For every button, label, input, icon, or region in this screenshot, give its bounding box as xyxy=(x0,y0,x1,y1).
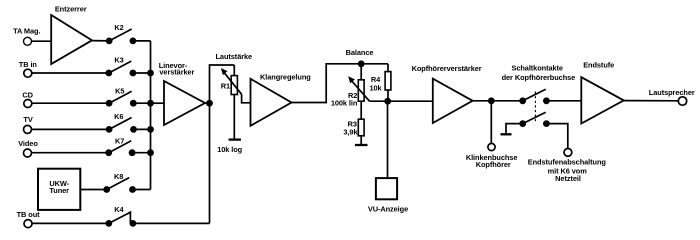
node Video terminal xyxy=(24,149,32,157)
svg-text:Endstufenabschaltung: Endstufenabschaltung xyxy=(528,158,607,167)
svg-text:Video: Video xyxy=(18,139,38,148)
op-amp Endstufe xyxy=(581,77,624,123)
wire R1 wiper arrow to Klangregelung xyxy=(221,68,251,103)
wire Video to K7 xyxy=(32,152,109,154)
svg-text:Lautstärke: Lautstärke xyxy=(216,52,253,61)
svg-text:TA Mag.: TA Mag. xyxy=(13,27,40,36)
svg-text:Schaltkontakte: Schaltkontakte xyxy=(511,64,562,73)
switch K5 xyxy=(106,91,137,106)
svg-text:Entzerrer: Entzerrer xyxy=(55,5,87,14)
switch upper jack contact xyxy=(519,89,550,104)
op-amp Entzerrer xyxy=(51,15,92,64)
svg-text:K3: K3 xyxy=(114,55,123,64)
svg-text:K2: K2 xyxy=(114,23,123,32)
node TA Mag. input terminal xyxy=(24,37,32,45)
wire mechanical link (dashed) xyxy=(534,92,536,123)
resistor R4 xyxy=(385,64,391,101)
wire junction to Kopfhoererverstaerker xyxy=(388,100,433,102)
switch K4 (closed) xyxy=(105,212,136,227)
node CD terminal xyxy=(24,100,32,108)
wire TB in to K3 xyxy=(32,72,109,74)
wire K6 to bus xyxy=(134,128,151,130)
node TV terminal xyxy=(24,125,32,133)
wire TB out to K4 xyxy=(32,222,109,224)
wire lower contact left to ground xyxy=(506,124,523,135)
resistor R1 potentiometer body xyxy=(231,65,237,140)
svg-text:10k log: 10k log xyxy=(217,145,242,154)
svg-text:10k: 10k xyxy=(369,83,382,92)
svg-text:CD: CD xyxy=(22,91,33,100)
svg-text:verstärker: verstärker xyxy=(159,68,194,77)
node bus junction K7 xyxy=(147,149,154,156)
svg-text:Netzteil: Netzteil xyxy=(555,174,581,183)
ground R3 bottom bar xyxy=(355,144,368,146)
wire junction down to VU-Anzeige xyxy=(387,101,389,178)
switch K7 xyxy=(105,141,135,156)
wire K7 to bus xyxy=(132,152,150,154)
node Endstufenabschaltung terminal xyxy=(564,149,572,157)
wire upper contact to Endstufe xyxy=(546,100,581,102)
node Lautsprecher terminal xyxy=(678,97,686,105)
op-amp Klangregelung xyxy=(251,79,292,126)
svg-text:TB in: TB in xyxy=(19,60,38,69)
resistor R3 xyxy=(358,119,364,145)
wire CD to K5 xyxy=(32,102,109,104)
VU-Anzeige box xyxy=(376,178,397,199)
svg-text:TB out: TB out xyxy=(17,210,41,219)
wire preamp node down to TB out line xyxy=(209,103,211,223)
svg-text:Klangregelung: Klangregelung xyxy=(260,73,311,82)
svg-text:Kopfhörerverstärker: Kopfhörerverstärker xyxy=(412,64,482,73)
svg-text:Tuner: Tuner xyxy=(49,186,69,195)
wire preamp node up to R1 top xyxy=(210,65,235,103)
op-amp Kopfhoererverstaerker xyxy=(433,79,473,123)
UKW-Tuner box xyxy=(38,169,80,210)
node bus junction K6 xyxy=(147,126,154,133)
switch K3 xyxy=(105,61,136,76)
wire UKW-Tuner to K8 xyxy=(80,189,106,191)
svg-text:K5: K5 xyxy=(115,87,124,96)
wire K2 to bus xyxy=(133,40,151,42)
svg-text:der Kopfhörerbuchse: der Kopfhörerbuchse xyxy=(502,73,576,82)
wire Linevorverstaerker output to node xyxy=(205,102,210,104)
svg-text:Lautsprecher: Lautsprecher xyxy=(649,88,695,97)
wire TA Mag. to Entzerrer input xyxy=(32,40,51,42)
wire Kopfhoererverstaerker output xyxy=(473,100,492,102)
svg-text:VU-Anzeige: VU-Anzeige xyxy=(368,205,408,214)
node bus junction K5 xyxy=(147,100,154,107)
resistor R2 potentiometer body xyxy=(358,64,364,119)
ground bar lower contact xyxy=(501,133,512,135)
wire input bus vertical xyxy=(150,41,152,190)
node bus junction K3 xyxy=(147,70,154,77)
svg-text:Balance: Balance xyxy=(346,48,374,57)
wire K4 to preamp node riser xyxy=(133,222,210,224)
svg-text:K7: K7 xyxy=(115,136,124,145)
svg-text:Kopfhörer: Kopfhörer xyxy=(476,160,511,169)
node Klinkenbuchse Kopfhoerer terminal xyxy=(488,143,495,150)
wire bus to Linevorverstaerker input xyxy=(151,102,165,104)
wire Entzerrer output to K2 xyxy=(92,40,109,42)
switch lower jack contact xyxy=(519,112,550,127)
svg-text:K4: K4 xyxy=(114,205,124,214)
svg-text:K6: K6 xyxy=(114,112,123,121)
op-amp Linevorverstaerker xyxy=(164,81,205,125)
svg-text:R1: R1 xyxy=(221,82,230,91)
node preamp output junction xyxy=(206,100,213,107)
wire TV to K6 xyxy=(32,128,110,130)
ground R1 bottom bar xyxy=(229,138,241,140)
node headphone tap junction xyxy=(488,97,495,104)
node signal junction after R4 xyxy=(384,98,391,105)
wire R2 wiper arrow to junction xyxy=(348,76,387,101)
wire Endstufe output to Lautsprecher xyxy=(624,100,679,102)
svg-text:Endstufe: Endstufe xyxy=(583,60,614,69)
wire lower contact right to Endstufenabschaltung xyxy=(546,124,567,149)
wire K8 to bus xyxy=(133,189,151,191)
wire K3 to bus xyxy=(133,72,151,74)
switch K2 xyxy=(106,29,137,44)
svg-text:3,9k: 3,9k xyxy=(343,127,358,136)
wire down to Klinkenbuchse xyxy=(490,101,492,144)
node TB out terminal xyxy=(24,220,32,228)
switch K8 xyxy=(103,178,136,193)
node Balance junction xyxy=(358,60,365,67)
node TB in terminal xyxy=(24,69,32,77)
svg-text:TV: TV xyxy=(23,115,32,124)
wire K5 to bus xyxy=(133,102,150,104)
svg-text:100k lin: 100k lin xyxy=(331,98,358,107)
svg-text:K8: K8 xyxy=(114,172,123,181)
wire junction to upper jack contact xyxy=(491,100,522,102)
switch K6 xyxy=(106,118,137,133)
wire Klangregelung output to Balance line xyxy=(292,64,389,103)
